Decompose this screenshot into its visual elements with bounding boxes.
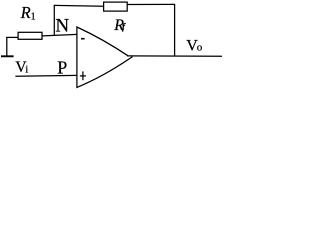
svg-text:N: N [55, 15, 69, 36]
svg-text:R: R [20, 3, 31, 22]
svg-text:P: P [57, 57, 67, 77]
svg-text:i: i [25, 64, 28, 75]
svg-text:1: 1 [31, 12, 36, 23]
svg-text:o: o [197, 42, 203, 54]
